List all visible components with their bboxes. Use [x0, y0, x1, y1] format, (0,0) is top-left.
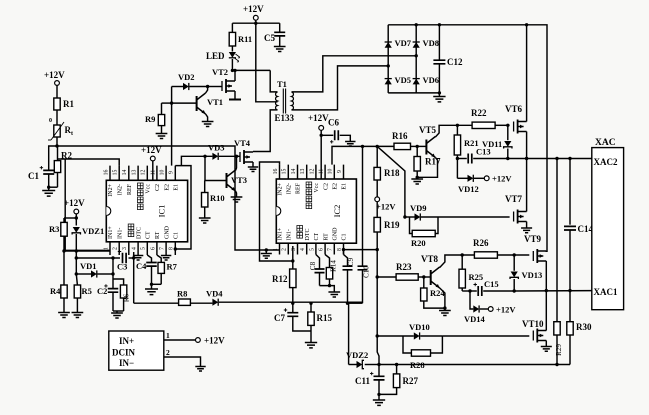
svg-text:9: 9: [337, 170, 343, 173]
mosfet VT10: [532, 331, 534, 341]
node: [342, 248, 345, 251]
svg-text:+12V: +12V: [376, 202, 396, 212]
node: [422, 275, 425, 278]
node: [309, 302, 312, 305]
svg-text:14: 14: [291, 169, 297, 175]
node: [62, 249, 65, 252]
svg-text:VT4: VT4: [234, 138, 251, 148]
svg-text:R17: R17: [425, 157, 441, 167]
wire E1 wrap IC2: [344, 249, 378, 251]
svg-text:R25: R25: [469, 272, 484, 282]
node: [291, 302, 294, 305]
svg-text:C3: C3: [117, 262, 127, 272]
svg-text:IN1-: IN1-: [117, 228, 123, 239]
svg-text:R1: R1: [63, 99, 74, 109]
svg-text:1: 1: [166, 331, 170, 340]
wire: [113, 310, 124, 312]
capacitor C6: [321, 134, 333, 136]
transistor VT8: [430, 270, 432, 285]
capacitor C8: [316, 255, 320, 270]
ground (VT8/R24): [444, 308, 446, 310]
svg-text:VD12: VD12: [458, 184, 479, 194]
wire: [112, 258, 114, 289]
svg-text:C14: C14: [578, 224, 594, 234]
node: [377, 393, 380, 396]
wire IC2 IN-wrap left: [260, 162, 293, 261]
op-amp/PWM IC2 body (TL494): [276, 179, 356, 243]
wire IC2 C1 rail: [376, 250, 378, 277]
svg-text:11: 11: [319, 169, 325, 175]
ground (C4/R7): [151, 284, 153, 288]
node: [395, 363, 398, 366]
resistor R19: [374, 217, 380, 232]
svg-text:VT10: VT10: [522, 319, 544, 329]
IC1 pin stubs bottom: [110, 242, 175, 255]
svg-text:C5: C5: [264, 33, 275, 43]
wire main bus (feedback): [134, 302, 179, 304]
svg-text:IN2-: IN2-: [117, 184, 123, 195]
node: [416, 145, 419, 148]
node: [525, 23, 528, 26]
svg-text:C1: C1: [174, 232, 180, 239]
svg-text:C11: C11: [355, 376, 371, 386]
svg-text:R7: R7: [167, 262, 178, 272]
connector DCIN box: [109, 331, 164, 370]
svg-text:4: 4: [300, 248, 306, 251]
svg-text:16: 16: [103, 170, 109, 176]
node: [203, 155, 206, 158]
svg-text:R20: R20: [411, 238, 426, 248]
node: [525, 157, 528, 160]
svg-text:C6: C6: [328, 118, 339, 128]
svg-text:T1: T1: [277, 79, 287, 89]
svg-text:R18: R18: [384, 168, 400, 178]
transistor VT5: [425, 140, 427, 155]
wire primary bottom to VT4: [253, 110, 278, 152]
svg-text:E1: E1: [342, 183, 348, 190]
zener diode VD13: [513, 255, 515, 271]
ground (VT1): [202, 122, 214, 127]
svg-text:VT8: VT8: [421, 254, 439, 264]
svg-text:VD1: VD1: [80, 261, 97, 271]
wire sense line to IC2 IN1: [57, 146, 280, 250]
node: [468, 289, 471, 292]
resistor R21: [456, 125, 458, 135]
svg-text:VDZ1: VDZ1: [82, 226, 104, 236]
resistor R25: [461, 255, 463, 269]
wire secondary top: [292, 56, 417, 92]
svg-text:C1: C1: [342, 233, 348, 240]
svg-text:+12V: +12V: [308, 113, 329, 123]
wire C14/R30 rail: [569, 159, 571, 225]
svg-text:E2: E2: [164, 184, 170, 191]
svg-text:7: 7: [328, 248, 334, 251]
svg-text:XAC: XAC: [595, 138, 616, 148]
wire primary top: [270, 70, 277, 92]
svg-text:2: 2: [166, 348, 170, 357]
svg-text:CT: CT: [314, 232, 320, 240]
svg-text:C9: C9: [347, 257, 355, 266]
svg-text:R4: R4: [50, 286, 61, 296]
svg-text:C2: C2: [323, 183, 329, 190]
svg-text:+12V: +12V: [64, 198, 85, 208]
node: [415, 23, 418, 26]
diode VD2: [172, 86, 183, 88]
svg-text:R15: R15: [317, 313, 333, 323]
svg-text:+12V: +12V: [243, 4, 264, 14]
svg-text:15: 15: [282, 169, 288, 175]
svg-text:IN1+: IN1+: [108, 226, 114, 239]
wire: [441, 216, 510, 218]
ground (C11/R27): [378, 394, 380, 399]
node: [132, 256, 135, 259]
ground IC1 pin4: [133, 256, 143, 260]
wire: [377, 336, 379, 365]
wire bridge bottom: [388, 92, 439, 94]
ground (VT2 source): [229, 99, 241, 101]
node: [75, 256, 78, 259]
svg-text:C2: C2: [97, 286, 107, 296]
svg-text:VD3: VD3: [208, 143, 225, 153]
zener diode VD11: [507, 125, 509, 140]
svg-text:R19: R19: [384, 220, 400, 230]
diode VD4: [212, 299, 218, 306]
node: [291, 259, 294, 262]
led LED: [231, 46, 233, 52]
svg-text:IN2-: IN2-: [287, 183, 293, 194]
svg-text:C15: C15: [484, 279, 499, 289]
wire: [75, 250, 77, 258]
node: [376, 334, 379, 337]
resistor R9: [162, 102, 172, 104]
resistor R10: [204, 181, 206, 193]
wire: [152, 283, 162, 285]
pin 1 (DCIN): [164, 339, 196, 341]
resistor R4: [63, 251, 65, 285]
capacitor C5: [279, 23, 281, 32]
svg-text:R26: R26: [473, 238, 489, 248]
svg-text:IN+: IN+: [119, 336, 134, 346]
wire bus drop to VDZ2: [349, 302, 363, 304]
node: [265, 248, 268, 251]
ground (R17): [411, 179, 423, 184]
resistor R29: [554, 322, 560, 335]
svg-text:VD5: VD5: [395, 75, 412, 85]
node: [254, 22, 257, 25]
svg-text:VT9: VT9: [524, 234, 542, 244]
resistor R12: [292, 246, 294, 269]
node: [438, 23, 441, 26]
svg-text:IN2+: IN2+: [278, 182, 284, 195]
thermistor Rt: [54, 125, 60, 137]
node: [75, 249, 78, 252]
diode VD1: [76, 273, 91, 275]
node: [555, 157, 558, 160]
svg-text:Vcc: Vcc: [314, 183, 320, 193]
wire: [232, 69, 270, 71]
wire R18/R19 divider: [376, 146, 378, 167]
wire IC1 E1-C1 wrap: [175, 166, 191, 249]
svg-text:1: 1: [103, 247, 109, 250]
svg-text:R30: R30: [576, 322, 592, 332]
svg-text:C7: C7: [274, 313, 285, 323]
resistor R6: [113, 279, 124, 285]
svg-text:R24: R24: [430, 288, 445, 298]
wire: [75, 258, 77, 274]
diode VD5: [385, 79, 392, 85]
wire XAC1 line: [514, 290, 592, 292]
ground (C2/R6): [116, 311, 118, 313]
svg-text:VD14: VD14: [464, 314, 486, 324]
resistor R26: [474, 252, 497, 258]
IC1 pin stubs top: [110, 166, 175, 181]
svg-text:15: 15: [113, 170, 119, 176]
resistor R16: [394, 143, 411, 149]
node: [170, 101, 173, 104]
ground IC1 pin7: [161, 256, 171, 260]
svg-text:+12V: +12V: [44, 70, 65, 80]
wire: [320, 286, 335, 292]
svg-text:REF: REF: [127, 183, 133, 195]
svg-text:R27: R27: [403, 376, 419, 386]
capacitor C7: [292, 303, 294, 313]
svg-text:R10: R10: [210, 193, 225, 203]
node: [443, 306, 446, 309]
svg-text:+12V: +12V: [204, 336, 225, 346]
resistor R24: [423, 277, 425, 288]
svg-text:VT1: VT1: [207, 97, 223, 107]
wire XAC2 line: [508, 158, 592, 160]
resistor R14: [325, 255, 329, 268]
resistor R27: [396, 365, 398, 374]
wire: [495, 124, 510, 126]
resistor R8: [179, 299, 191, 305]
svg-text:CT: CT: [146, 231, 152, 239]
svg-text:+12V: +12V: [141, 145, 162, 155]
svg-text:VD13: VD13: [522, 270, 543, 280]
ground (C1/R2): [48, 187, 50, 190]
wire R29 rail: [556, 159, 558, 322]
power terminal +12V (VD14): [488, 307, 493, 312]
node: [456, 157, 459, 160]
svg-text:VT3: VT3: [231, 175, 247, 185]
svg-text:E1: E1: [174, 184, 180, 191]
ground (DCIN): [195, 367, 205, 371]
svg-text:VD8: VD8: [423, 38, 440, 48]
svg-text:RT: RT: [155, 231, 161, 239]
svg-text:VD4: VD4: [206, 289, 223, 299]
wire: [56, 137, 58, 146]
svg-text:13: 13: [300, 169, 306, 175]
svg-text:C2: C2: [155, 184, 161, 191]
wire: [205, 156, 227, 180]
resistor R7: [157, 255, 161, 262]
wire: [133, 252, 135, 303]
wire diagonal to VD9: [377, 146, 405, 217]
svg-text:C1: C1: [28, 171, 39, 181]
mosfet VT6: [513, 122, 515, 132]
svg-text:t: t: [71, 131, 73, 137]
svg-text:E133: E133: [275, 113, 295, 123]
svg-text:R11: R11: [238, 34, 252, 44]
node: [233, 69, 236, 72]
mosfet VT2: [208, 86, 222, 88]
op-amp/PWM IC1 body (TL494): [106, 180, 187, 242]
diode VD14: [470, 291, 473, 309]
svg-text:R5: R5: [82, 286, 92, 296]
svg-text:XAC2: XAC2: [594, 157, 618, 167]
svg-text:3: 3: [122, 247, 128, 250]
diode VD9: [405, 216, 415, 218]
node: [150, 283, 153, 286]
resistor R15: [310, 303, 312, 312]
svg-text:DCIN: DCIN: [112, 348, 136, 358]
svg-text:12: 12: [141, 170, 147, 176]
svg-text:+12V: +12V: [496, 305, 516, 315]
svg-text:VD9: VD9: [410, 203, 427, 213]
svg-text:1: 1: [273, 248, 279, 251]
resistor R18: [374, 167, 380, 180]
svg-text:VDZ2: VDZ2: [346, 350, 368, 360]
node: [461, 253, 464, 256]
svg-text:RT: RT: [323, 233, 329, 241]
node: [377, 363, 380, 366]
wire bottom rail: [379, 364, 570, 366]
svg-text:VD7: VD7: [395, 38, 412, 48]
svg-text:VD2: VD2: [178, 72, 195, 82]
resistor R28 (parallel): [403, 336, 411, 353]
node: [387, 64, 390, 67]
mosfet VT7: [513, 212, 515, 222]
node: [320, 134, 323, 137]
svg-text:12: 12: [309, 169, 315, 175]
svg-text:7: 7: [160, 247, 166, 250]
wire DC+ top rail: [388, 25, 547, 252]
capacitor C13: [457, 158, 466, 160]
IC2 pin stubs bottom: [280, 243, 344, 254]
svg-text:Vcc: Vcc: [146, 184, 152, 194]
svg-text:R29: R29: [555, 344, 563, 356]
svg-text:10: 10: [160, 170, 166, 176]
node: [415, 54, 418, 57]
wire: [56, 110, 58, 125]
connector XAC box: [592, 148, 624, 310]
diode VD7: [385, 42, 392, 48]
resistor R1: [54, 98, 60, 110]
ground (VT10 source): [541, 347, 552, 352]
svg-text:XAC1: XAC1: [594, 287, 618, 297]
resistor R23: [377, 276, 396, 278]
svg-text:2: 2: [113, 247, 119, 250]
svg-text:GND: GND: [164, 225, 170, 239]
svg-text:13: 13: [132, 170, 138, 176]
svg-text:GND: GND: [333, 227, 339, 241]
capacitor C15: [462, 290, 477, 292]
resistor R17: [416, 146, 418, 156]
svg-text:2: 2: [282, 248, 288, 251]
resistor R20 (parallel): [410, 217, 413, 234]
svg-text:4: 4: [132, 247, 138, 250]
capacitor C12: [438, 25, 440, 60]
capacitor C4: [147, 255, 151, 263]
svg-text:VT5: VT5: [419, 125, 437, 135]
resistor R30: [569, 291, 571, 322]
node: [456, 124, 459, 127]
wire: [190, 302, 212, 304]
wire primary center tap to +12V: [256, 23, 278, 102]
mosfet VT9: [532, 251, 534, 261]
svg-text:VT7: VT7: [505, 194, 523, 204]
capacitor C10: [362, 146, 364, 266]
svg-text:E2: E2: [333, 183, 339, 190]
mosfet VT4: [239, 152, 241, 162]
svg-text:LED: LED: [206, 51, 225, 61]
wire VD10 rail: [376, 277, 378, 336]
svg-text:IN2+: IN2+: [108, 183, 114, 196]
svg-text:14: 14: [122, 170, 128, 176]
svg-text:DTC: DTC: [305, 229, 311, 241]
node: [376, 248, 379, 251]
svg-text:IN1+: IN1+: [278, 227, 284, 240]
svg-text:R14: R14: [330, 260, 338, 272]
svg-text:VT6: VT6: [505, 104, 523, 114]
wire: [418, 276, 431, 278]
zener diode VDZ1: [73, 227, 80, 233]
wire bridge right leg: [415, 25, 417, 93]
svg-text:3: 3: [291, 248, 297, 251]
wire: [442, 335, 529, 337]
node: [545, 289, 548, 292]
transistor VT3: [226, 173, 228, 188]
wire IN1 line: [64, 250, 110, 252]
svg-text:IN1-: IN1-: [287, 229, 293, 240]
pin 2 (DCIN): [164, 357, 201, 366]
node: [376, 275, 379, 278]
ground (C12): [433, 97, 445, 102]
svg-text:R12: R12: [272, 274, 288, 284]
node: [568, 157, 571, 160]
power terminal +12V (DCIN): [196, 338, 201, 343]
capacitor C2: [108, 289, 119, 293]
node R2-top junction: [55, 144, 58, 147]
node: [376, 145, 379, 148]
node: [403, 215, 406, 218]
capacitor C14: [564, 226, 576, 230]
node: [328, 284, 331, 287]
capacitor C1: [49, 146, 57, 170]
ground (C8/R14): [328, 292, 340, 297]
svg-text:C8: C8: [309, 261, 317, 270]
ground (sense line): [265, 250, 267, 253]
resistor R22: [472, 122, 495, 128]
diode VD3: [181, 156, 212, 166]
svg-text:C12: C12: [447, 57, 463, 67]
ground (C6): [345, 142, 355, 146]
svg-text:DTC: DTC: [136, 227, 142, 239]
svg-text:R8: R8: [177, 289, 187, 299]
wire: [56, 85, 58, 98]
transformer T1: [276, 92, 278, 110]
svg-text:5: 5: [309, 248, 315, 251]
IC2 pin stubs top: [280, 165, 344, 179]
capacitor C3: [123, 253, 127, 264]
node: [75, 272, 78, 275]
svg-text:16: 16: [273, 169, 279, 175]
ground (VT7 source): [521, 228, 532, 233]
svg-text:VD6: VD6: [423, 75, 440, 85]
ground (VT4 source): [248, 167, 258, 171]
diode VD12: [457, 177, 467, 179]
